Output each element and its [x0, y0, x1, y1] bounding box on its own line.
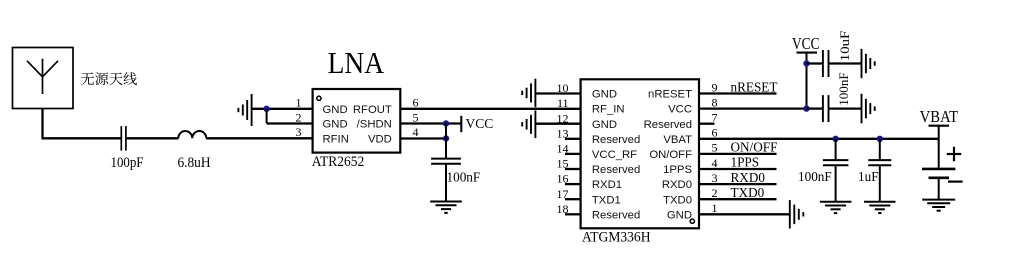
junction C6 on VBAT rail	[877, 136, 883, 142]
VCC rail tick	[797, 52, 818, 54]
svg-text:13: 13	[557, 126, 569, 140]
svg-text:GND: GND	[323, 119, 348, 131]
wire C3 to ground	[829, 62, 862, 64]
svg-text:LNA: LNA	[328, 45, 385, 80]
svg-text:1PPS: 1PPS	[731, 155, 760, 170]
svg-text:Reserved: Reserved	[592, 134, 640, 146]
svg-text:11: 11	[557, 96, 569, 110]
svg-text:VCC: VCC	[668, 104, 692, 116]
svg-text:4: 4	[712, 156, 718, 170]
svg-text:VCC: VCC	[466, 116, 494, 131]
wire C1 to L1	[126, 137, 179, 139]
junction node pins 1-2	[263, 106, 269, 112]
svg-text:VDD: VDD	[368, 133, 392, 145]
wire ground to U2 pin 12	[535, 123, 580, 125]
svg-text:RXD1: RXD1	[592, 179, 622, 191]
svg-text:2: 2	[296, 110, 302, 124]
svg-text:nRESET: nRESET	[731, 79, 778, 94]
wire U2 pin 9 nRESET	[699, 92, 777, 94]
ground under battery	[922, 200, 955, 211]
wire U2 pin 5 ON/OFF	[699, 153, 777, 155]
wire to C4	[807, 107, 823, 109]
svg-text:3: 3	[712, 171, 718, 185]
junction C4 branch	[803, 105, 809, 111]
junction pin 5 node	[443, 120, 449, 126]
svg-text:1uF: 1uF	[858, 169, 879, 184]
wire antenna to C1	[41, 109, 43, 139]
svg-text:RXD0: RXD0	[731, 170, 766, 185]
svg-text:15: 15	[557, 157, 569, 171]
U2 pin-1 marker	[690, 219, 694, 223]
svg-text:ON/OFF: ON/OFF	[649, 149, 692, 161]
wire U2 pin 2 TXD0	[699, 198, 777, 200]
svg-text:Reserved: Reserved	[644, 119, 692, 131]
antenna ANT1 box	[13, 48, 74, 109]
battery BT1 top plate	[922, 168, 955, 171]
svg-text:RFOUT: RFOUT	[353, 104, 392, 116]
svg-text:RF_IN: RF_IN	[592, 104, 625, 116]
wire L1 to U1 RFIN pin 3	[206, 137, 313, 139]
ground at U1 pins 1,2	[238, 94, 251, 126]
VCC rail bar at U1	[460, 116, 462, 132]
battery BT1 minus sign	[948, 181, 963, 183]
svg-text:GND: GND	[592, 119, 617, 131]
ground under C2	[430, 202, 462, 213]
svg-text:3: 3	[296, 125, 302, 139]
svg-text:Reserved: Reserved	[592, 209, 640, 221]
junction C3 branch	[803, 60, 809, 66]
ground under C6	[864, 202, 896, 213]
svg-text:18: 18	[557, 202, 569, 216]
svg-text:Reserved: Reserved	[592, 164, 640, 176]
capacitor C5 100nF	[823, 160, 849, 165]
U2 pin names	[592, 89, 693, 222]
capacitor C2 100nF	[431, 159, 461, 164]
svg-text:ATGM336H: ATGM336H	[582, 229, 651, 245]
ground at U2 pin 12	[522, 111, 535, 139]
svg-text:GND: GND	[323, 104, 348, 116]
svg-text:/SHDN: /SHDN	[357, 119, 392, 131]
wire VCC rail down	[806, 53, 808, 109]
battery BT1 bottom plate	[929, 177, 950, 180]
wire U2 pin 3 RXD0	[699, 183, 777, 185]
ground at U2 pin 10	[522, 79, 535, 107]
wire ground to pin 1	[252, 108, 313, 110]
svg-text:17: 17	[557, 187, 569, 201]
svg-text:14: 14	[557, 142, 569, 156]
U1 pin names	[323, 104, 392, 146]
svg-text:RXD0: RXD0	[662, 179, 692, 191]
wire to C3	[807, 62, 823, 64]
wire U2 pin 6 VBAT rail	[699, 138, 939, 140]
wire node to C2	[445, 124, 447, 160]
capacitor C4 100nF	[823, 95, 829, 122]
svg-text:6: 6	[712, 126, 718, 140]
wire ground to U2 pin 10	[535, 92, 580, 94]
svg-text:8: 8	[712, 95, 718, 109]
svg-text:6.8uH: 6.8uH	[178, 155, 211, 171]
svg-text:RFIN: RFIN	[323, 133, 349, 145]
wire VBAT down to battery	[938, 126, 940, 168]
svg-text:7: 7	[712, 111, 718, 125]
svg-text:TXD0: TXD0	[663, 194, 692, 206]
svg-text:GND: GND	[592, 89, 617, 101]
label 无源天线	[81, 72, 137, 85]
wire battery to ground	[938, 178, 940, 200]
svg-text:1: 1	[712, 201, 718, 215]
wire U2 pin 1 GND	[699, 213, 790, 215]
svg-text:2: 2	[712, 186, 718, 200]
wire U2 pin 4 1PPS	[699, 168, 777, 170]
svg-text:9: 9	[712, 80, 718, 94]
svg-text:TXD0: TXD0	[731, 185, 765, 200]
svg-text:12: 12	[557, 111, 569, 125]
capacitor C3 10uF	[823, 50, 829, 77]
svg-text:16: 16	[557, 172, 569, 186]
wire U1 RFOUT pin 6 to U2 RF_IN pin 11	[400, 108, 581, 110]
IC U2 ATGM336H box	[581, 79, 699, 228]
svg-text:VCC: VCC	[792, 34, 820, 53]
svg-text:VCC_RF: VCC_RF	[592, 149, 637, 161]
svg-text:6: 6	[413, 96, 419, 110]
VBAT rail tick	[929, 125, 950, 127]
U1 pin-1 marker	[317, 96, 321, 100]
svg-text:VBAT: VBAT	[920, 107, 959, 126]
svg-text:VBAT: VBAT	[663, 134, 692, 146]
capacitor C1 100pF	[121, 126, 126, 151]
wire U2 pin 8 to VCC node	[699, 107, 807, 109]
junction C5 on VBAT rail	[832, 136, 838, 142]
U2 pin 7 stub	[699, 123, 715, 125]
svg-text:1: 1	[296, 96, 302, 110]
wire C4 to ground	[829, 107, 862, 109]
svg-text:nRESET: nRESET	[648, 89, 692, 101]
wire C6 to ground	[879, 165, 881, 201]
ground at U2 pin 1	[790, 200, 804, 228]
wire junction to pin 2	[266, 109, 268, 124]
svg-text:5: 5	[413, 110, 419, 124]
wire U1 /SHDN pin 5 to VCC	[400, 122, 460, 124]
battery BT1 plus sign	[947, 147, 961, 161]
wire down to C5	[835, 139, 837, 161]
svg-text:100nF: 100nF	[447, 170, 481, 185]
antenna symbol	[27, 59, 58, 94]
svg-text:4: 4	[413, 125, 419, 139]
U2 left pin stubs 13-18	[565, 139, 581, 215]
svg-text:10uF: 10uF	[837, 31, 852, 62]
svg-text:GND: GND	[667, 209, 692, 221]
ground at C3	[862, 49, 875, 78]
svg-text:100pF: 100pF	[111, 155, 144, 171]
svg-text:1PPS: 1PPS	[663, 164, 692, 176]
wire C5 to ground	[835, 165, 837, 201]
ground under C5	[820, 202, 852, 213]
U2 right pin numbers	[712, 80, 718, 215]
svg-text:ATR2652: ATR2652	[312, 154, 365, 170]
svg-text:100nF: 100nF	[798, 169, 832, 184]
capacitor C6 1uF	[868, 160, 891, 165]
ground at C4	[862, 94, 875, 124]
svg-text:10: 10	[557, 81, 569, 95]
U2 left pin numbers	[557, 81, 569, 216]
junction pin 4 node	[443, 135, 449, 141]
svg-text:5: 5	[712, 141, 718, 155]
wire down to C6	[879, 139, 881, 161]
svg-text:TXD1: TXD1	[592, 194, 621, 206]
inductor L1 6.8uH	[178, 131, 206, 138]
svg-text:100nF: 100nF	[836, 72, 851, 106]
op-amp U1 ATR2652 box	[313, 89, 401, 153]
svg-text:ON/OFF: ON/OFF	[731, 140, 778, 155]
wire U1 VDD pin 4	[400, 137, 446, 139]
